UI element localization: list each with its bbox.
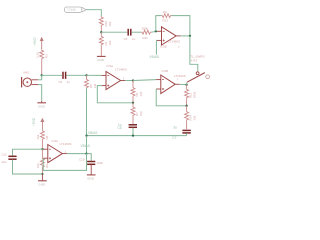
switch S1 lever <box>187 73 205 83</box>
wire IC3A feedback (-in loop) <box>97 86 133 103</box>
node IC3B output junction <box>189 35 191 37</box>
svg-text:LT1490S: LT1490S <box>115 68 127 72</box>
capacitor C7 <box>172 126 191 140</box>
svg-text:IC2B: IC2B <box>162 69 169 73</box>
resistor R6 (feedback) <box>131 81 143 103</box>
op-amp IC2A <box>43 139 71 163</box>
wire IC3B out to switch contact <box>190 36 198 71</box>
wire node to C10 <box>87 154 92 161</box>
wire R12 to output <box>172 16 190 36</box>
capacitor C6 <box>118 123 138 130</box>
svg-text:VBIAS: VBIAS <box>81 144 90 148</box>
svg-text:LT1490S: LT1490S <box>174 74 186 78</box>
svg-text:C6: C6 <box>118 126 122 130</box>
wire node to IC3A +in <box>87 74 102 76</box>
wire switch pole to output node <box>186 83 188 85</box>
wire feedback up <box>156 16 161 32</box>
svg-text:10u: 10u <box>2 160 7 164</box>
svg-text:C2: C2 <box>59 80 63 84</box>
resistor R11 180k <box>141 27 151 40</box>
wire R5 to VBIAS rail <box>86 88 88 135</box>
wire rail to IC2A output <box>86 136 88 154</box>
svg-text:R12: R12 <box>163 19 169 23</box>
wire midpoint to C11 <box>13 149 43 155</box>
microphone MK1 <box>22 71 38 88</box>
svg-text:10k: 10k <box>139 111 143 116</box>
wire midpoint to C5 <box>101 31 127 33</box>
ground (tone divider) <box>97 56 106 62</box>
svg-text:GND: GND <box>97 58 105 62</box>
capacitor C11 <box>2 153 17 165</box>
svg-text:100k: 100k <box>193 91 197 98</box>
svg-text:10k: 10k <box>139 91 143 96</box>
node signal junction <box>85 74 87 76</box>
node rail left junction <box>85 134 87 136</box>
wire C11 to ground run <box>13 160 43 174</box>
svg-text:4 R2: 4 R2 <box>191 58 198 62</box>
svg-text:100n: 100n <box>97 161 104 165</box>
svg-text:IC2A: IC2A <box>52 139 59 143</box>
ground (C10) <box>87 165 96 181</box>
svg-text:3u: 3u <box>173 126 177 130</box>
wire flag to divider <box>86 10 101 16</box>
wire IC3A out to IC2B in <box>133 79 156 82</box>
node IC2B feedback junction <box>185 105 187 107</box>
net VBIAS rail <box>87 135 187 137</box>
wire IC2A output to node <box>67 153 87 155</box>
capacitor C10 <box>79 158 104 166</box>
svg-text:C5: C5 <box>124 37 128 41</box>
svg-text:TONE: TONE <box>67 8 77 12</box>
resistor R14 (IC2B gain) <box>185 106 197 129</box>
svg-text:IC3B: IC3B <box>160 45 167 49</box>
wire C6 to rail <box>132 128 134 136</box>
capacitor C2 (series, mic signal) <box>59 72 71 84</box>
wire IC2A feedback loop <box>43 154 86 171</box>
resistor R5 (bias to VBIAS) <box>85 75 98 88</box>
svg-text:C7: C7 <box>172 136 176 140</box>
switch S1 open contact <box>206 75 210 79</box>
resistor R3 (mic bias) <box>35 49 48 75</box>
svg-text:10k: 10k <box>36 134 40 139</box>
wire IC3B output <box>181 35 190 37</box>
svg-text:2.2k: 2.2k <box>35 52 39 58</box>
node IC2B output junction <box>185 84 187 86</box>
svg-text:VBIAS: VBIAS <box>150 55 159 59</box>
svg-text:LT1490S: LT1490S <box>60 142 72 146</box>
wire IC2B output <box>180 83 187 85</box>
node IC3B -in junction <box>155 30 157 32</box>
svg-text:10k: 10k <box>108 40 112 45</box>
svg-text:180k: 180k <box>142 27 149 31</box>
svg-text:R3: R3 <box>44 54 48 58</box>
resistor R10 (tone divider top) <box>99 16 112 32</box>
svg-text:1u: 1u <box>67 80 71 84</box>
op-amp IC3B <box>157 27 181 49</box>
resistor R9 (divider bottom) <box>36 149 49 174</box>
node IC2A output junction <box>85 152 87 154</box>
svg-text:C10: C10 <box>79 158 85 162</box>
node divider bottom junction <box>41 173 43 175</box>
supply symbol +5VD (top-left) <box>33 37 44 49</box>
resistor R8 (divider top) <box>36 130 49 149</box>
wire IC2B feedback loop <box>156 89 186 106</box>
wire mic top pin to junction <box>38 75 42 80</box>
svg-text:R8: R8 <box>45 135 49 139</box>
svg-text:1M: 1M <box>163 10 168 14</box>
node rail C6 junction <box>132 134 134 136</box>
wire junction to C2 <box>42 74 62 76</box>
svg-text:10k: 10k <box>36 163 40 168</box>
wire C5 to R11 <box>132 31 141 33</box>
node tone divider midpoint <box>100 31 102 33</box>
wire IC3A output <box>125 80 133 82</box>
svg-text:IC3A: IC3A <box>107 64 114 68</box>
node feedback junction <box>132 102 134 104</box>
op-amp IC3A <box>102 64 127 89</box>
wire C2 to node <box>67 74 87 76</box>
net flag TONE <box>65 7 86 12</box>
resistor R13 (IC2B feedback) <box>185 85 197 106</box>
svg-text:R9: R9 <box>45 164 49 168</box>
wire C7 to rail <box>186 133 188 135</box>
resistor R4 (tone divider bottom) <box>99 32 112 56</box>
resistor R12 1M (feedback) <box>161 10 171 23</box>
switch S1 contact <box>196 72 199 75</box>
svg-text:MK1: MK1 <box>24 71 31 75</box>
supply symbol +5VD (bottom divider) <box>32 117 44 130</box>
wire R11 to IC3B -in <box>151 30 157 33</box>
svg-text:LT1490S: LT1490S <box>168 40 180 44</box>
wire mic bottom pin down <box>38 85 42 101</box>
ground (divider) <box>38 174 47 186</box>
resistor R7 (gain) <box>131 103 143 124</box>
svg-text:10k: 10k <box>108 21 112 26</box>
svg-text:VBIAS: VBIAS <box>88 131 97 135</box>
node IC3A output junction <box>132 79 134 81</box>
op-amp IC2B <box>156 69 186 94</box>
svg-text:+5VD: +5VD <box>33 37 37 46</box>
ground (mic) <box>37 101 46 109</box>
node mic/R3 junction <box>41 74 43 76</box>
capacitor C5 <box>124 29 136 41</box>
svg-text:GND: GND <box>87 176 95 180</box>
svg-text:C11: C11 <box>2 153 8 157</box>
svg-text:1M: 1M <box>93 83 97 88</box>
svg-text:1u: 1u <box>132 37 136 41</box>
wire midpoint to IC2A +in <box>41 148 44 150</box>
svg-text:GND: GND <box>38 104 46 108</box>
svg-text:10k: 10k <box>193 115 197 120</box>
node divider midpoint <box>41 148 43 150</box>
wire IC3B +in VBIAS stub <box>155 40 158 54</box>
svg-text:+5VD: +5VD <box>32 117 36 126</box>
svg-text:GND: GND <box>38 182 46 186</box>
svg-text:R11: R11 <box>143 36 149 40</box>
